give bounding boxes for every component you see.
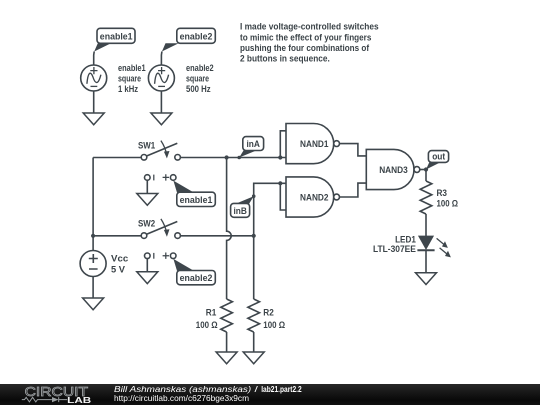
svg-text:NAND1: NAND1	[300, 139, 329, 149]
flag enable2 (SW2 control)	[173, 259, 215, 285]
svg-text:LAB: LAB	[67, 395, 91, 405]
switch SW1	[93, 140, 280, 180]
wire R2 to ground	[253, 332, 255, 352]
wire NAND1 out to NAND3	[340, 144, 367, 156]
wire Vcc to ground	[92, 277, 94, 299]
LED1	[373, 235, 451, 258]
svg-text:I made voltage-controlled swit: I made voltage-controlled switchesto mim…	[240, 22, 379, 65]
wire LED1 to ground	[425, 250, 427, 272]
wire Vcc to SW2 rail	[92, 236, 94, 251]
NAND2	[286, 177, 340, 217]
flag out	[426, 151, 449, 170]
resistor R2	[248, 299, 285, 332]
flag enable2 (top)	[162, 28, 215, 51]
flag enable1 (SW1 control)	[173, 181, 215, 207]
svg-text:R2100 Ω: R2100 Ω	[263, 307, 285, 330]
ground under V1	[83, 113, 104, 125]
voltage source V1	[81, 65, 107, 91]
svg-text:enable1square1 kHz: enable1square1 kHz	[118, 63, 146, 94]
junction dot NAND2 input	[278, 181, 282, 185]
junction dot out	[424, 167, 428, 171]
flag inB	[231, 194, 256, 217]
junction dot at left rail / SW2	[91, 234, 95, 238]
svg-text:enable2square500 Hz: enable2square500 Hz	[186, 63, 214, 94]
wire NAND3 out	[420, 169, 426, 171]
NAND3	[366, 149, 420, 189]
wire R1 to ground	[226, 332, 228, 352]
svg-text:SW1: SW1	[138, 140, 155, 150]
svg-text:enable1: enable1	[180, 195, 213, 205]
wire left rail	[92, 158, 94, 236]
junction dot inA wire / R1 rail	[225, 155, 229, 159]
svg-text:R3100 Ω: R3100 Ω	[437, 188, 459, 209]
resistor R3	[420, 181, 458, 214]
voltage source V2	[148, 65, 174, 91]
wire flag2 to V2	[160, 52, 163, 66]
NAND1	[286, 124, 340, 164]
wire inB riser	[254, 183, 281, 236]
wire V2 to ground	[160, 91, 162, 113]
footer byline	[114, 384, 302, 403]
wire R3 to LED1	[425, 214, 427, 236]
resistor R1	[196, 299, 233, 332]
ground under SW2 control	[137, 259, 158, 284]
wire R1 rail	[227, 158, 232, 300]
svg-text:NAND2: NAND2	[300, 192, 329, 202]
flag enable1 (top)	[94, 28, 135, 51]
wire flag1 to V1	[93, 52, 96, 66]
svg-text:inA: inA	[247, 139, 261, 149]
svg-text:LED1LTL-307EE: LED1LTL-307EE	[373, 235, 416, 255]
footer bar	[0, 384, 540, 405]
ground under V2	[151, 113, 172, 125]
flag inA	[237, 137, 263, 160]
svg-text:http://circuitlab.com/c6276bge: http://circuitlab.com/c6276bge3x9cm	[114, 393, 249, 403]
CircuitLab logo	[22, 384, 91, 405]
svg-text:enable1: enable1	[100, 31, 133, 41]
ground under SW1 control	[137, 180, 158, 205]
svg-text:R1100 Ω: R1100 Ω	[196, 307, 218, 330]
ground under LED1	[416, 273, 437, 285]
svg-text:NAND3: NAND3	[379, 165, 408, 175]
svg-text:enable2: enable2	[180, 31, 213, 41]
junction dot SW2 / R2 rail	[252, 234, 256, 238]
ground under R2	[243, 352, 264, 364]
switch SW2	[93, 219, 254, 259]
junction dot NAND1 input	[278, 155, 282, 159]
svg-text:SW2: SW2	[138, 219, 155, 229]
NAND1 input stubs	[280, 131, 286, 158]
svg-text:Vcc5 V: Vcc5 V	[111, 254, 128, 275]
svg-text:out: out	[432, 152, 445, 162]
voltage source Vcc	[80, 251, 106, 277]
svg-text:enable2: enable2	[180, 273, 213, 283]
wire R2 rail	[253, 236, 255, 299]
svg-text:inB: inB	[234, 206, 248, 216]
wire V1 to ground	[93, 91, 95, 113]
ground under R1	[216, 352, 237, 364]
wire out to R3	[425, 170, 427, 182]
NAND2 input stubs	[280, 183, 286, 210]
wire NAND2 out to NAND3	[340, 183, 367, 197]
ground under Vcc	[83, 298, 104, 310]
